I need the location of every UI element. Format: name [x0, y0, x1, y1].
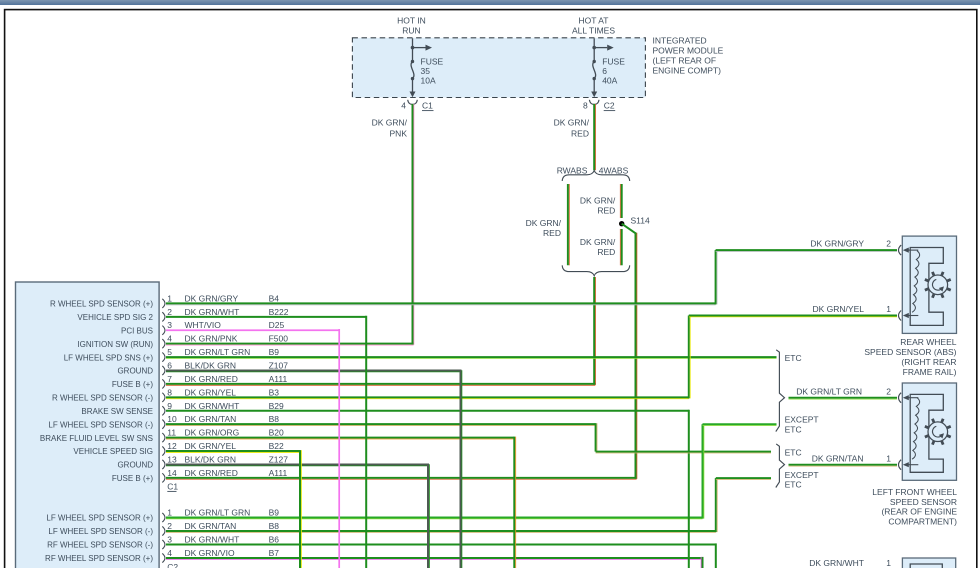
svg-text:2: 2 — [167, 307, 172, 317]
svg-text:DK GRN/LT GRN: DK GRN/LT GRN — [185, 347, 251, 357]
svg-text:LF WHEEL SPD SENSOR (+): LF WHEEL SPD SENSOR (+) — [46, 514, 153, 523]
svg-text:DK GRN/LT GRN: DK GRN/LT GRN — [796, 387, 862, 397]
svg-text:B8: B8 — [269, 521, 280, 531]
svg-text:LF WHEEL SPD SNS (+): LF WHEEL SPD SNS (+) — [64, 353, 154, 362]
svg-text:12: 12 — [167, 441, 177, 451]
svg-text:D25: D25 — [269, 320, 285, 330]
svg-text:10: 10 — [167, 414, 177, 424]
svg-text:HOT AT: HOT AT — [579, 16, 609, 26]
svg-text:RF WHEEL SPD SENSOR (+): RF WHEEL SPD SENSOR (+) — [45, 554, 153, 563]
svg-text:7: 7 — [167, 374, 172, 384]
svg-text:S114: S114 — [631, 216, 650, 226]
svg-text:B29: B29 — [269, 401, 284, 411]
svg-text:DK GRN/LT GRN: DK GRN/LT GRN — [185, 508, 251, 518]
svg-text:B222: B222 — [269, 307, 289, 317]
svg-text:DK GRN/: DK GRN/ — [526, 218, 562, 228]
svg-text:GROUND: GROUND — [117, 461, 153, 470]
svg-text:VEHICLE SPD SIG 2: VEHICLE SPD SIG 2 — [77, 313, 153, 322]
svg-text:DK GRN/WHT: DK GRN/WHT — [185, 535, 240, 545]
svg-text:DK GRN/GRY: DK GRN/GRY — [185, 293, 239, 303]
svg-text:ETC: ETC — [785, 353, 802, 363]
svg-text:PCI BUS: PCI BUS — [121, 326, 153, 335]
svg-text:LF WHEEL SPD SENSOR (-): LF WHEEL SPD SENSOR (-) — [48, 420, 153, 429]
svg-text:DK GRN/YEL: DK GRN/YEL — [185, 441, 237, 451]
svg-text:DK GRN/ORG: DK GRN/ORG — [185, 428, 240, 438]
svg-text:ENGINE COMPT): ENGINE COMPT) — [653, 66, 722, 76]
svg-text:LEFT FRONT WHEEL: LEFT FRONT WHEEL — [872, 487, 957, 497]
svg-text:RED: RED — [571, 129, 589, 139]
svg-text:3: 3 — [167, 320, 172, 330]
svg-text:DK GRN/WHT: DK GRN/WHT — [185, 401, 240, 411]
svg-text:(RIGHT REAR: (RIGHT REAR — [901, 357, 956, 367]
svg-text:Z107: Z107 — [269, 361, 289, 371]
svg-text:RED: RED — [543, 228, 561, 238]
svg-text:1: 1 — [886, 454, 891, 464]
svg-text:DK GRN/: DK GRN/ — [372, 118, 408, 128]
svg-text:C2: C2 — [167, 562, 178, 568]
svg-text:BRAKE FLUID LEVEL SW SNS: BRAKE FLUID LEVEL SW SNS — [40, 434, 153, 443]
svg-text:6: 6 — [167, 361, 172, 371]
svg-text:DK GRN/WHT: DK GRN/WHT — [809, 558, 864, 568]
svg-text:4: 4 — [401, 101, 406, 111]
svg-text:B22: B22 — [269, 441, 284, 451]
svg-text:C2: C2 — [604, 101, 615, 111]
svg-text:RF WHEEL SPD SENSOR (-): RF WHEEL SPD SENSOR (-) — [47, 541, 153, 550]
svg-text:8: 8 — [167, 387, 172, 397]
svg-text:DK GRN/GRY: DK GRN/GRY — [810, 239, 864, 249]
svg-text:13: 13 — [167, 454, 177, 464]
svg-text:DK GRN/PNK: DK GRN/PNK — [185, 334, 238, 344]
svg-text:A111: A111 — [269, 468, 288, 478]
svg-text:DK GRN/TAN: DK GRN/TAN — [185, 414, 237, 424]
svg-text:C1: C1 — [167, 481, 178, 491]
svg-text:3: 3 — [167, 535, 172, 545]
svg-text:DK GRN/YEL: DK GRN/YEL — [813, 304, 865, 314]
svg-text:2: 2 — [167, 521, 172, 531]
svg-text:14: 14 — [167, 468, 177, 478]
svg-text:IGNITION SW (RUN): IGNITION SW (RUN) — [77, 340, 153, 349]
svg-text:2: 2 — [886, 239, 891, 249]
svg-text:SPEED SENSOR: SPEED SENSOR — [890, 497, 957, 507]
svg-text:RED: RED — [597, 206, 615, 216]
svg-text:9: 9 — [167, 401, 172, 411]
svg-text:DK GRN/RED: DK GRN/RED — [185, 468, 238, 478]
svg-text:6: 6 — [602, 66, 607, 76]
svg-text:DK GRN/: DK GRN/ — [554, 118, 590, 128]
svg-text:C1: C1 — [422, 101, 433, 111]
svg-text:DK GRN/RED: DK GRN/RED — [185, 374, 238, 384]
svg-text:DK GRN/WHT: DK GRN/WHT — [185, 307, 240, 317]
svg-text:ETC: ETC — [785, 480, 802, 490]
svg-text:REAR WHEEL: REAR WHEEL — [900, 337, 956, 347]
svg-text:35: 35 — [421, 66, 431, 76]
svg-text:B9: B9 — [269, 347, 280, 357]
svg-text:SPEED SENSOR (ABS): SPEED SENSOR (ABS) — [864, 347, 956, 357]
svg-text:8: 8 — [583, 101, 588, 111]
svg-text:R WHEEL SPD SENSOR (-): R WHEEL SPD SENSOR (-) — [52, 394, 153, 403]
svg-text:A111: A111 — [269, 374, 288, 384]
svg-text:40A: 40A — [602, 76, 617, 86]
svg-text:WHT/VIO: WHT/VIO — [185, 320, 222, 330]
svg-text:10A: 10A — [421, 76, 436, 86]
svg-text:BRAKE SW SENSE: BRAKE SW SENSE — [81, 407, 153, 416]
svg-text:INTEGRATED: INTEGRATED — [653, 36, 707, 46]
svg-text:(REAR OF ENGINE: (REAR OF ENGINE — [881, 507, 957, 517]
svg-text:POWER MODULE: POWER MODULE — [653, 46, 724, 56]
svg-text:RUN: RUN — [402, 26, 420, 36]
svg-text:DK GRN/TAN: DK GRN/TAN — [812, 454, 864, 464]
svg-text:11: 11 — [167, 428, 176, 438]
svg-text:FUSE B (+): FUSE B (+) — [112, 474, 153, 483]
svg-text:RED: RED — [597, 247, 615, 257]
svg-text:(LEFT REAR OF: (LEFT REAR OF — [653, 56, 717, 66]
svg-text:B3: B3 — [269, 387, 280, 397]
svg-text:DK GRN/: DK GRN/ — [580, 196, 616, 206]
svg-text:R WHEEL SPD SENSOR (+): R WHEEL SPD SENSOR (+) — [50, 300, 153, 309]
svg-text:FRAME RAIL): FRAME RAIL) — [903, 367, 957, 377]
svg-text:ETC: ETC — [785, 448, 802, 458]
svg-text:GROUND: GROUND — [117, 367, 153, 376]
svg-text:2: 2 — [886, 387, 891, 397]
svg-text:4WABS: 4WABS — [599, 166, 629, 176]
svg-text:FUSE B (+): FUSE B (+) — [112, 380, 153, 389]
svg-text:1: 1 — [886, 304, 891, 314]
svg-text:BLK/DK GRN: BLK/DK GRN — [185, 454, 237, 464]
svg-text:EXCEPT: EXCEPT — [785, 470, 819, 480]
svg-text:4: 4 — [167, 334, 172, 344]
svg-text:B8: B8 — [269, 414, 280, 424]
svg-text:PNK: PNK — [390, 129, 408, 139]
svg-text:B9: B9 — [269, 508, 280, 518]
svg-text:FUSE: FUSE — [421, 57, 444, 67]
svg-text:B7: B7 — [269, 548, 280, 558]
svg-text:5: 5 — [167, 347, 172, 357]
svg-text:LF WHEEL SPD SENSOR (-): LF WHEEL SPD SENSOR (-) — [48, 527, 153, 536]
svg-text:4: 4 — [167, 548, 172, 558]
svg-text:RWABS: RWABS — [557, 166, 588, 176]
svg-text:FUSE: FUSE — [602, 57, 625, 67]
svg-text:DK GRN/: DK GRN/ — [580, 237, 616, 247]
svg-text:1: 1 — [886, 558, 891, 568]
svg-text:BLK/DK GRN: BLK/DK GRN — [185, 361, 237, 371]
svg-text:ETC: ETC — [785, 424, 802, 434]
svg-text:Z127: Z127 — [269, 454, 289, 464]
svg-text:B6: B6 — [269, 535, 280, 545]
svg-text:B4: B4 — [269, 293, 280, 303]
svg-text:B20: B20 — [269, 428, 284, 438]
svg-text:F500: F500 — [269, 334, 289, 344]
svg-text:ALL TIMES: ALL TIMES — [572, 26, 615, 36]
svg-text:DK GRN/TAN: DK GRN/TAN — [185, 521, 237, 531]
svg-text:COMPARTMENT): COMPARTMENT) — [888, 516, 957, 526]
svg-text:EXCEPT: EXCEPT — [785, 414, 819, 424]
svg-text:DK GRN/VIO: DK GRN/VIO — [185, 548, 235, 558]
svg-text:VEHICLE SPEED SIG: VEHICLE SPEED SIG — [73, 447, 153, 456]
svg-text:HOT IN: HOT IN — [397, 16, 426, 26]
svg-text:1: 1 — [167, 293, 172, 303]
svg-text:1: 1 — [167, 508, 172, 518]
svg-text:DK GRN/YEL: DK GRN/YEL — [185, 387, 237, 397]
